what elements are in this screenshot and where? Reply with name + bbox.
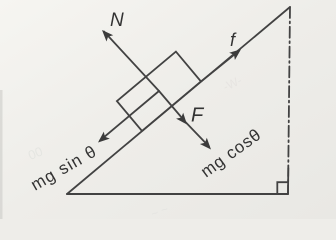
dashed side solid tail bbox=[287, 168, 289, 194]
svg-text:F: F bbox=[191, 105, 205, 127]
normal force N wire bbox=[104, 32, 159, 92]
svg-text:N: N bbox=[110, 10, 124, 31]
right angle marker bbox=[277, 182, 288, 193]
block on incline bbox=[117, 52, 201, 131]
arrowhead N bbox=[102, 30, 113, 42]
friction f wire bbox=[201, 51, 239, 82]
incline hypotenuse wire bbox=[67, 7, 290, 194]
arrowhead mg sin theta bbox=[98, 132, 110, 143]
dashed vertical side bbox=[288, 7, 290, 194]
mg cos theta wire bbox=[185, 122, 209, 147]
arrowhead f bbox=[229, 49, 241, 60]
base wire bbox=[67, 193, 288, 195]
arrowhead mg cos theta bbox=[200, 138, 211, 150]
ghost bleed-through text bbox=[26, 144, 45, 163]
force F wire bbox=[159, 91, 185, 122]
mg sin theta wire bbox=[100, 91, 159, 141]
arrowhead F bbox=[176, 113, 187, 125]
page scan left edge bbox=[0, 90, 3, 219]
